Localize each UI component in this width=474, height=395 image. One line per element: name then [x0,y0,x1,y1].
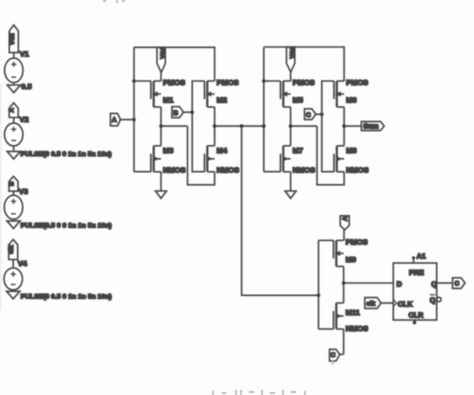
wire stage2 inverter-out loop to M8 source [317,126,344,185]
junction at carry-stage gate bus input [317,294,321,298]
transistor M8 (NMOS) [334,146,344,172]
transistor M6 (PMOS) [334,81,344,107]
voltage source V1 [5,25,29,93]
wire carry-stage gate bus [318,240,320,329]
wire clk flag to CLK pin [381,302,393,304]
power flag Vdd stage1 [157,47,165,72]
wire M7 source to ground [290,172,292,191]
svg-text:M5: M5 [293,96,303,105]
svg-text:PMOS: PMOS [346,237,368,246]
transistor M9 (PMOS) [334,240,344,266]
wire M3 source to ground [160,172,162,191]
wire Vdd flag stem to M5 source [290,72,292,81]
junction at carry output node [342,281,346,285]
junction at M1 gate on bus [132,79,136,83]
wire C flag to C bus [316,113,322,115]
svg-text:M6: M6 [346,96,356,105]
wire M11 gate lead [319,328,334,330]
ground stage2 [285,191,296,198]
wire M1 gate lead [134,80,151,82]
transistor M1 (PMOS) [151,81,161,107]
svg-text:NMOS: NMOS [217,166,240,175]
junction at stage2 inverter output node [289,124,293,128]
svg-text:PULSE(0 0.5 0 1n 1n 5n 10n): PULSE(0 0.5 0 1n 1n 5n 10n) [21,294,112,301]
svg-text:NMOS: NMOS [293,166,316,175]
ground stage1 [156,191,167,198]
wire B gate bus [192,81,204,172]
wire Sum node to flag [344,125,361,127]
svg-text:C: C [455,281,460,288]
voltage source V2 [5,103,29,159]
svg-text:NMOS: NMOS [346,166,369,175]
node C output flag [453,278,466,289]
voltage source V3 [4,176,28,228]
wire M5 drain to mid node [290,107,292,126]
wire M6 drain to Sum node [343,107,345,126]
svg-text:PMOS: PMOS [293,78,315,87]
wire M3 gate lead [134,171,151,173]
wire M1 drain to mid node [160,107,162,126]
svg-text:V4: V4 [18,259,28,268]
svg-text:NMOS: NMOS [163,166,186,175]
scan artifact top cropped text [103,0,125,3]
svg-text:A: A [342,216,349,221]
svg-text:M2: M2 [217,96,227,105]
svg-text:A: A [112,117,117,124]
svg-text:A: A [9,107,16,112]
wire mid node to loop [291,125,317,127]
svg-text:M9: M9 [346,255,356,264]
svg-text:C: C [331,352,336,359]
svg-text:M8: M8 [346,146,356,155]
svg-text:clk: clk [366,300,375,307]
svg-text:B: B [173,110,178,117]
svg-text:PMOS: PMOS [163,78,185,87]
wire M3 drain to mid node [160,126,162,146]
svg-text:Vdd: Vdd [9,33,16,45]
wire A flag to gate bus [120,119,134,121]
wire mid node to loop [161,125,188,127]
junction at tap to carry stage [240,124,244,128]
power flag Vdd stage2 [287,47,295,72]
wire stage1 inverter-out loop to M4 source [188,126,215,185]
wire M9 gate lead [319,239,334,241]
svg-text:V3: V3 [19,187,28,196]
svg-text:PRE: PRE [409,268,424,277]
wire Vdd flag stem to M1 source [160,73,162,82]
wire M5 gate lead [264,80,281,82]
svg-text:CLK: CLK [398,299,414,308]
wire M11 drain to carry node [343,283,345,303]
wire M8 drain to Sum node [343,126,345,146]
junction at stage1 inverter output node [159,124,163,128]
svg-text:M1: M1 [163,96,173,105]
transistor M3 (NMOS) [151,146,161,172]
svg-text:Vdd: Vdd [161,47,167,58]
transistor M2 (PMOS) [205,81,215,107]
junction at M5 gate on bus [262,79,266,83]
transistor M5 (PMOS) [281,81,291,107]
wire M4 drain to XOR1 output [214,126,216,146]
node C flag at M11 source [330,349,340,361]
wire Q to C flag [437,282,453,284]
svg-text:B: B [9,181,16,186]
junction at Sum output node [342,124,346,128]
junction at B on B bus [190,110,194,114]
node B input flag [172,107,184,118]
svg-text:M7: M7 [293,146,303,155]
transistor M7 (NMOS) [281,146,291,172]
svg-text:D: D [397,280,402,289]
wire M2 drain to XOR1 output [214,107,216,126]
wire stage1 top rail [134,47,215,81]
svg-text:M3: M3 [163,146,173,155]
svg-text:clk: clk [8,245,15,254]
wire carry node to D pin [344,282,394,284]
voltage source V4 [4,240,28,299]
wire B flag to B bus [183,111,192,113]
junction at stage2 input on bus [262,124,266,128]
svg-text:C: C [306,112,311,119]
svg-text:PULSE(0 0.5 0 1n 1n 5n 10n): PULSE(0 0.5 0 1n 1n 5n 10n) [21,151,112,158]
transistor M11 (NMOS) [334,303,344,329]
wire A flag stem to M9 source [343,230,345,241]
wire M7 gate lead [264,171,281,173]
svg-text:A1: A1 [417,252,426,261]
junction at A on stage1 gate bus [132,118,136,122]
node A flag above M9 [340,216,349,230]
svg-text:Q: Q [430,296,436,305]
svg-text:NMOS: NMOS [346,324,369,333]
svg-text:M4: M4 [217,146,228,155]
transistor M4 (NMOS) [205,146,215,172]
svg-text:PMOS: PMOS [217,78,239,87]
wire M9 drain to carry node [343,266,345,283]
scan artifact left edge [0,84,1,310]
svg-text:V1: V1 [20,50,29,59]
junction at XOR1 output node [213,124,217,128]
svg-text:Sum: Sum [363,124,378,131]
svg-text:M11: M11 [346,308,360,317]
wire M11 source down [343,329,345,354]
svg-text:PMOS: PMOS [346,78,368,87]
wire C flag stub [340,353,344,355]
wire M7 drain to mid node [290,126,292,146]
wire stage2 left bus [263,47,265,172]
svg-text:Vdd: Vdd [290,47,296,58]
wire stage1 left bus [133,47,135,171]
node Sum output flag [361,122,384,131]
wire XOR1 output to stage2 [215,125,264,127]
node A input flag [110,113,120,125]
wire C gate bus [322,81,334,172]
node C input flag [305,109,316,120]
svg-text:V2: V2 [20,115,29,124]
node clk input flag [365,298,381,309]
svg-text:0.5: 0.5 [21,82,31,91]
wire stage2 top rail [264,47,344,81]
svg-text:Q: Q [431,280,437,289]
scan artifact bottom cropped caption [213,390,305,395]
junction at C on C bus [320,113,324,117]
flip-flop A1 [393,256,441,324]
svg-text:PULSE(0.5 0 0 1n 1n 5n 10n): PULSE(0.5 0 0 1n 1n 5n 10n) [21,222,112,229]
svg-text:CLR: CLR [409,311,425,320]
wire XOR1 output down to carry-stage gate bus [242,126,319,295]
